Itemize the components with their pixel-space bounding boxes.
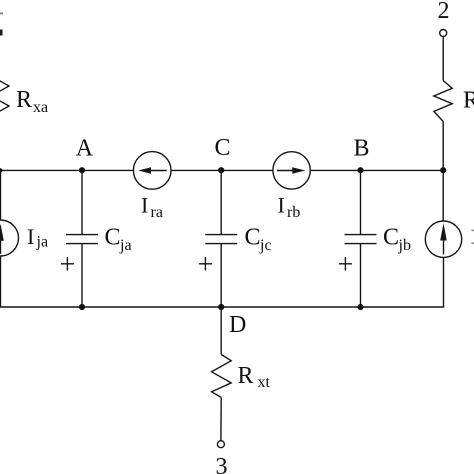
capacitor C_jc <box>205 170 237 307</box>
wire: middle rail right segment <box>310 169 443 171</box>
wire D to R_xt <box>220 307 222 355</box>
label (right source, cut at right edge) <box>472 230 474 243</box>
capacitor C_jb <box>345 170 377 307</box>
terminal 2 <box>438 0 450 37</box>
resistor R_xb <box>434 81 452 122</box>
wire: right source down and corner to bottom bus <box>0 257 444 307</box>
wire: middle rail between I_ra and I_rb <box>171 169 273 171</box>
node B <box>357 167 363 173</box>
svg-text:R: R <box>238 363 254 389</box>
label I_ja <box>27 224 48 251</box>
svg-text:C: C <box>105 225 121 251</box>
terminal 3 <box>216 441 228 474</box>
svg-text:ja: ja <box>36 234 49 251</box>
wire terminal2 to R_xb <box>442 37 444 81</box>
svg-text:2: 2 <box>438 0 450 24</box>
svg-text:3: 3 <box>216 454 228 474</box>
svg-text:A: A <box>76 136 94 162</box>
current source I_rb <box>273 152 310 189</box>
capacitor C_ja <box>66 170 98 307</box>
label R_xt <box>238 363 271 391</box>
svg-text:B: B <box>354 136 370 162</box>
current source (right, label cut off) <box>425 221 461 257</box>
label I_ra <box>141 193 163 222</box>
node C <box>218 167 224 173</box>
node D <box>218 304 224 310</box>
svg-text:C: C <box>245 225 261 251</box>
svg-text:+: + <box>198 250 214 281</box>
svg-text:D: D <box>229 312 246 338</box>
svg-text:I: I <box>27 224 34 249</box>
current source I_ra <box>133 152 171 190</box>
node A <box>79 167 85 173</box>
junction at left edge of middle rail <box>0 168 3 172</box>
label C_ja <box>105 225 132 255</box>
svg-text:xt: xt <box>258 374 271 391</box>
svg-text:R: R <box>463 88 474 114</box>
svg-text:C: C <box>215 135 231 161</box>
current source I_ja (partial, cut at left edge) <box>0 170 19 307</box>
svg-text:ja: ja <box>119 237 132 254</box>
terminal 1 (partial, cut at left edge) <box>0 14 3 36</box>
wire R_xb to node <box>442 122 444 171</box>
wire: middle rail left segment <box>0 169 134 171</box>
junction dot below B <box>357 304 363 310</box>
svg-text:I: I <box>141 193 148 218</box>
svg-text:C: C <box>383 225 399 251</box>
junction dot below A <box>79 304 85 310</box>
svg-text:jb: jb <box>398 237 411 254</box>
svg-text:I: I <box>278 193 285 218</box>
label C_jb <box>383 225 411 255</box>
wire R_xt to terminal 3 <box>220 397 222 440</box>
svg-text:+: + <box>338 250 354 281</box>
label C_jc <box>245 225 272 255</box>
resistor R_xa (partial, cut at left edge) <box>0 76 9 116</box>
wire: right rail node down to current source <box>442 170 444 221</box>
svg-text:R: R <box>16 87 32 113</box>
node at right rail junction <box>440 167 446 173</box>
svg-text:jc: jc <box>259 237 272 254</box>
svg-text:rb: rb <box>287 204 300 221</box>
svg-text:+: + <box>60 250 76 281</box>
resistor R_xt <box>212 355 232 398</box>
label I_rb <box>278 193 301 222</box>
svg-text:ra: ra <box>151 204 163 221</box>
label R_xa <box>16 87 48 116</box>
svg-text:xa: xa <box>33 99 48 116</box>
